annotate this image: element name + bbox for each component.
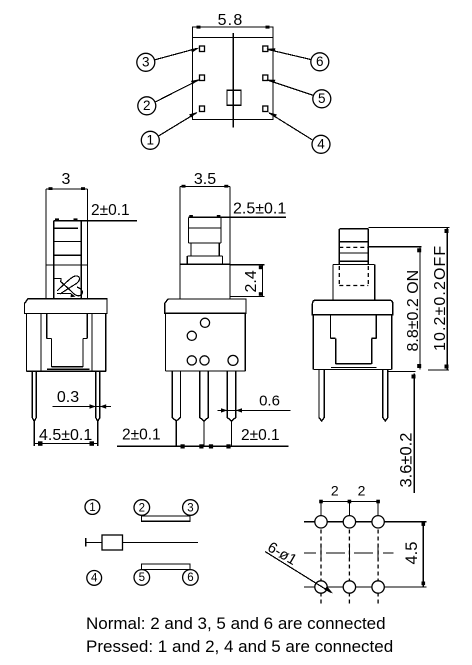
svg-text:2: 2 [143, 98, 151, 113]
svg-text:5.8: 5.8 [218, 12, 244, 29]
svg-text:0.6: 0.6 [259, 393, 280, 410]
svg-text:3.6±0.2: 3.6±0.2 [398, 433, 416, 488]
svg-text:6: 6 [187, 572, 193, 584]
svg-text:2.5±0.1: 2.5±0.1 [233, 201, 286, 218]
svg-text:2±0.1: 2±0.1 [91, 202, 130, 219]
svg-text:4.5±0.1: 4.5±0.1 [39, 427, 92, 444]
svg-text:Pressed: 1 and 2, 4 and 5 are: Pressed: 1 and 2, 4 and 5 are connected [86, 637, 393, 656]
svg-text:4: 4 [91, 573, 98, 585]
svg-text:5: 5 [318, 91, 326, 106]
svg-text:3: 3 [142, 55, 150, 70]
svg-text:1: 1 [147, 133, 155, 148]
svg-text:2: 2 [331, 483, 339, 499]
svg-text:0.3: 0.3 [57, 389, 79, 406]
svg-text:1: 1 [89, 502, 95, 514]
svg-text:10.2±0.2OFF: 10.2±0.2OFF [432, 245, 449, 351]
svg-text:8.8±0.2 ON: 8.8±0.2 ON [405, 270, 422, 352]
svg-text:2: 2 [358, 483, 366, 499]
svg-text:2±0.1: 2±0.1 [122, 427, 161, 444]
svg-text:4: 4 [317, 137, 325, 152]
svg-text:6: 6 [316, 54, 324, 69]
svg-text:2±0.1: 2±0.1 [241, 427, 280, 444]
svg-text:3.5: 3.5 [194, 171, 216, 188]
svg-text:2: 2 [139, 502, 145, 514]
svg-text:4.5: 4.5 [403, 542, 421, 565]
svg-text:3: 3 [62, 171, 71, 188]
svg-text:2.4: 2.4 [243, 270, 260, 292]
svg-text:Normal: 2 and 3, 5 and 6 are c: Normal: 2 and 3, 5 and 6 are connected [86, 614, 386, 633]
svg-text:3: 3 [187, 502, 193, 514]
svg-text:5: 5 [139, 572, 145, 584]
